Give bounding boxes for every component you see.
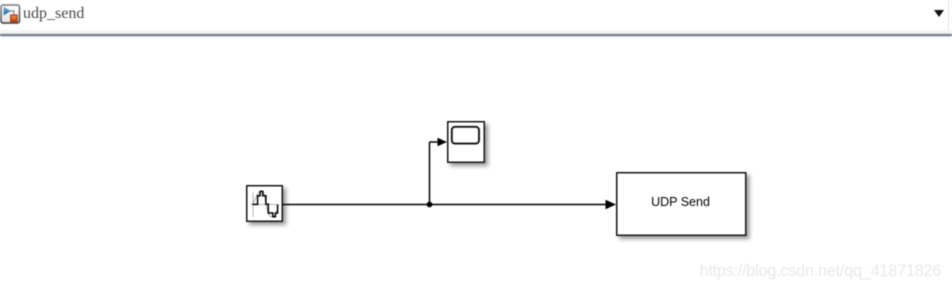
svg-text:UDP Send: UDP Send [651,195,710,209]
